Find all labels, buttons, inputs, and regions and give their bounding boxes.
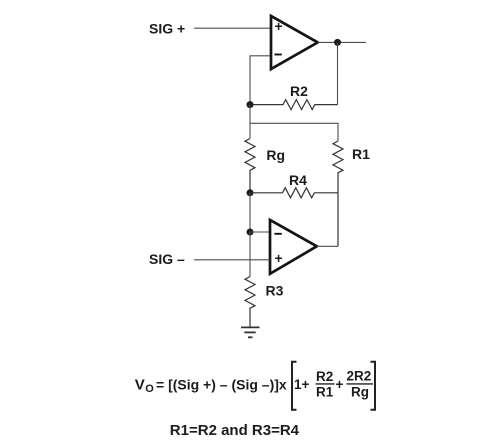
svg-text:SIG –: SIG –	[149, 251, 185, 267]
svg-text:+: +	[275, 18, 283, 34]
svg-text:R1: R1	[352, 146, 370, 162]
wire U1 -input to node A	[250, 56, 270, 105]
svg-text:2R2: 2R2	[347, 369, 372, 384]
fraction R2/R1	[316, 369, 334, 400]
wire down through SIG- to R3	[249, 232, 251, 277]
svg-text:= [(Sig +) – (Sig –)]x: = [(Sig +) – (Sig –)]x	[156, 377, 287, 393]
svg-text:Rg: Rg	[351, 385, 369, 400]
svg-text:R1=R2 and R3=R4: R1=R2 and R3=R4	[170, 422, 300, 439]
resistor Rg	[245, 139, 255, 193]
wire node B down to U2 -input node	[249, 193, 251, 232]
svg-text:R3: R3	[266, 283, 284, 299]
resistor R1	[333, 141, 343, 246]
wire SIG+ to U1 +input	[194, 27, 270, 29]
node A junction	[247, 101, 254, 108]
wire U1 output	[318, 41, 366, 43]
fraction 2R2/Rg	[347, 369, 372, 400]
junction U2 -input node	[247, 229, 254, 236]
wire node A branch to R1 top	[250, 123, 338, 141]
op-amp U2	[270, 220, 317, 274]
wire U2 output to right rail	[317, 245, 338, 247]
wire SIG- to U2 +input	[194, 259, 270, 261]
junction U1 output node	[334, 39, 341, 46]
svg-text:Rg: Rg	[266, 147, 285, 163]
svg-text:R4: R4	[289, 172, 307, 188]
wire to U2 -input	[250, 231, 270, 233]
op-amp U1	[271, 16, 318, 69]
svg-text:SIG +: SIG +	[149, 20, 185, 36]
svg-text:R2: R2	[290, 83, 308, 99]
formula Vo	[135, 377, 287, 396]
resistor R4	[250, 188, 338, 198]
svg-text:1+: 1+	[294, 377, 310, 392]
svg-text:O: O	[145, 383, 154, 395]
wire output down to R2	[337, 42, 339, 104]
node B junction	[247, 189, 254, 196]
wire node A down to Rg	[249, 105, 251, 139]
formula right bracket	[371, 362, 376, 410]
resistor R2	[250, 100, 338, 110]
svg-text:R1: R1	[316, 385, 334, 400]
U1 -input mark	[274, 54, 281, 56]
svg-text:V: V	[135, 377, 145, 394]
resistor R3	[245, 277, 255, 328]
ground	[241, 327, 260, 337]
svg-text:+: +	[336, 377, 344, 392]
svg-text:+: +	[275, 250, 283, 266]
svg-text:R2: R2	[316, 369, 333, 384]
formula left bracket	[292, 362, 297, 410]
U2 -input mark	[274, 233, 281, 235]
